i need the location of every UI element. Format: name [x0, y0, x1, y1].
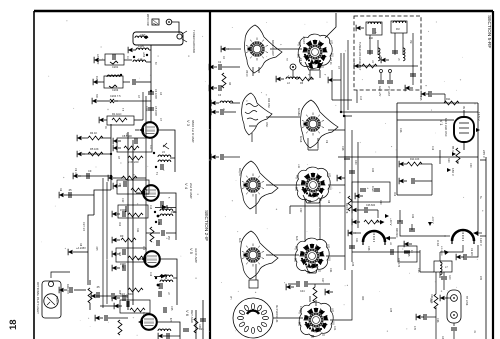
svg-text:C17: C17 — [121, 264, 124, 269]
svg-text:6U8: 6U8 — [238, 238, 241, 243]
svg-text:V 5: V 5 — [189, 248, 194, 255]
blob A2 stem wire — [251, 133, 253, 142]
svg-text:6U8: 6U8 — [295, 236, 298, 241]
svg-text:TP: TP — [285, 58, 287, 61]
wires bus left — [78, 124, 111, 190]
svg-text:R15: R15 — [407, 252, 410, 257]
svg-text:6CG8: 6CG8 — [299, 136, 302, 143]
svg-text:R18: R18 — [118, 290, 120, 295]
capacitor C5 — [145, 106, 158, 116]
stage feed components row1 — [112, 208, 126, 217]
svg-text:R26 600: R26 600 — [395, 228, 398, 238]
resistor feed V4 — [108, 175, 146, 181]
resistor under V3 — [128, 156, 143, 164]
svg-text:C13: C13 — [359, 96, 361, 101]
svg-text:C4 1000: C4 1000 — [154, 89, 158, 99]
svg-text:+A 245V: +A 245V — [76, 246, 86, 250]
svg-text:.005: .005 — [95, 246, 97, 251]
svg-text:FM 72: FM 72 — [95, 76, 99, 84]
bottom middle cluster — [249, 280, 333, 302]
svg-text:6BQ7A: 6BQ7A — [238, 168, 241, 176]
svg-text:R20: R20 — [361, 296, 363, 301]
svg-text:R16: R16 — [125, 294, 128, 299]
svg-text:3rd IF AMP: 3rd IF AMP — [194, 248, 198, 263]
wire — [172, 22, 179, 33]
svg-text:C34: C34 — [351, 262, 353, 267]
svg-text:R4 1K: R4 1K — [90, 131, 97, 135]
diode C204 — [92, 94, 151, 104]
blob A1 stem — [253, 67, 259, 76]
svg-text:C16: C16 — [399, 128, 402, 133]
blob A1 labels — [245, 40, 274, 77]
svg-text:FM: FM — [396, 28, 399, 31]
svg-text:R13: R13 — [118, 252, 120, 257]
svg-text:R19: R19 — [429, 298, 432, 303]
svg-text:C12: C12 — [121, 198, 124, 203]
svg-text:FM: FM — [409, 40, 411, 43]
blob A3 stem wire — [255, 194, 257, 214]
svg-text:C23: C23 — [142, 312, 144, 317]
svg-text:6BC8 RF AMP: 6BC8 RF AMP — [271, 40, 274, 56]
big tube circle bottom — [233, 298, 279, 338]
grid network box — [113, 134, 152, 152]
svg-text:V 4: V 4 — [184, 183, 189, 190]
svg-text:18: 18 — [8, 319, 19, 330]
diode CR2 — [154, 274, 166, 286]
svg-text:470: 470 — [413, 326, 416, 331]
svg-text:V 2A: V 2A — [436, 240, 440, 246]
detector diode 1N64 — [155, 205, 177, 217]
wire below dashed box — [397, 103, 478, 236]
bottom right RC network — [416, 272, 457, 339]
svg-text:V8 RF: V8 RF — [245, 70, 248, 77]
resistor R7 chain lower left — [68, 222, 88, 255]
more value labels — [95, 40, 475, 339]
wire pair right of socket B1 — [336, 53, 344, 116]
wires socket B1 to top — [325, 13, 336, 38]
resistor R11 — [421, 91, 459, 105]
right-side bus wires — [345, 115, 358, 270]
svg-text:120 V: 120 V — [479, 238, 483, 246]
svg-text:300 OHM: 300 OHM — [146, 13, 150, 26]
antenna input block — [133, 30, 196, 53]
svg-text:+: + — [367, 186, 369, 190]
svg-text:SECTION 5-RF: SECTION 5-RF — [486, 15, 492, 48]
socket B4 stem — [306, 266, 318, 273]
resistor R4 row — [77, 131, 111, 141]
svg-text:1M: 1M — [142, 132, 144, 135]
svg-text:C31: C31 — [329, 268, 332, 273]
svg-text:R17: R17 — [321, 278, 324, 283]
svg-text:C14: C14 — [149, 205, 151, 210]
socket B3 dark — [295, 167, 332, 202]
svg-text:C29: C29 — [411, 214, 413, 219]
blob A4 — [241, 231, 278, 279]
coil L1A — [133, 57, 151, 62]
svg-text:VHF ANT: VHF ANT — [387, 86, 390, 97]
svg-text:C203: C203 — [112, 88, 119, 92]
svg-text:ANT 300: ANT 300 — [96, 54, 100, 65]
section divider line — [209, 11, 211, 339]
grid network V6 — [114, 300, 150, 313]
tube V2A half envelope — [436, 230, 483, 256]
resistor R19 5600 — [91, 288, 143, 299]
long wires right section — [332, 70, 352, 100]
scattered labels left section — [59, 118, 162, 299]
tube V6 — [138, 314, 157, 330]
svg-text:C38: C38 — [389, 308, 391, 313]
ground arrow — [221, 46, 229, 52]
svg-text:R40: R40 — [448, 275, 451, 280]
IF transformer T3 — [155, 259, 177, 305]
svg-text:C9: C9 — [88, 169, 92, 173]
svg-text:C33: C33 — [417, 268, 420, 273]
svg-text:R23: R23 — [198, 324, 201, 329]
wire under V2B — [349, 246, 420, 268]
svg-text:+40 V: +40 V — [389, 218, 393, 226]
svg-text:6BZ6 1st IF AMP: 6BZ6 1st IF AMP — [191, 120, 195, 143]
svg-text:.05: .05 — [96, 285, 100, 289]
tube V2B half envelope — [348, 228, 398, 245]
V1 lower network — [397, 148, 460, 195]
socket B5 dark — [298, 302, 335, 337]
svg-text:R27 470: R27 470 — [397, 258, 400, 268]
UHF lower row — [354, 33, 418, 97]
capacitor C21 — [211, 154, 240, 160]
tube V4 — [136, 185, 159, 201]
svg-text:85 V: 85 V — [451, 146, 455, 152]
svg-text:2nd IF AMP: 2nd IF AMP — [189, 183, 193, 199]
svg-text:AGC +2V: AGC +2V — [378, 86, 381, 97]
wire main aerial chain — [150, 45, 152, 122]
svg-text:C41: C41 — [333, 326, 336, 331]
dashed UHF tuner box — [354, 16, 421, 90]
svg-text:10uF: 10uF — [371, 186, 374, 192]
wire to dashed box — [347, 40, 349, 110]
pilot light assembly — [36, 281, 61, 318]
svg-text:OPTIONAL PILOT LIGHT: OPTIONAL PILOT LIGHT — [36, 282, 40, 314]
svg-text:R13 4.7K: R13 4.7K — [345, 203, 348, 214]
link connector — [440, 290, 468, 323]
svg-text:3.3K 220: 3.3K 220 — [128, 160, 139, 164]
lower-left RC cluster — [59, 280, 100, 310]
svg-text:R12: R12 — [118, 222, 120, 227]
svg-text:245: 245 — [479, 276, 482, 281]
wires top of pilot — [51, 272, 70, 278]
tuner socket blob A1 — [245, 25, 282, 73]
small box C19 — [398, 246, 417, 262]
AGC box — [99, 112, 143, 125]
svg-text:R9: R9 — [120, 234, 124, 238]
svg-text:3.9K: 3.9K — [145, 106, 149, 112]
svg-text:V 1: V 1 — [439, 120, 443, 125]
antenna terminal circle — [166, 19, 172, 25]
mixer cap C6 — [444, 245, 478, 260]
wire to blob A1 — [228, 48, 241, 50]
mid caps between V2 halves — [397, 210, 446, 247]
oscillator coil box L7 — [420, 245, 463, 278]
left cluster of V2 area — [345, 203, 393, 226]
main vertical buses — [128, 132, 133, 310]
svg-text:C27 1.5: C27 1.5 — [82, 222, 86, 232]
components left of blob A1 — [209, 61, 240, 97]
svg-text:1N64: 1N64 — [171, 211, 177, 214]
svg-text:R14 10K: R14 10K — [410, 158, 420, 161]
svg-text:R2 1K: R2 1K — [329, 58, 332, 65]
svg-text:C6 10: C6 10 — [299, 58, 302, 65]
svg-text:C40: C40 — [354, 160, 357, 165]
IF transformer T2 — [154, 193, 176, 240]
long bus pair — [103, 178, 107, 308]
svg-text:47K: 47K — [169, 318, 171, 323]
UHF coil box 2 — [391, 21, 407, 33]
svg-text:C25: C25 — [170, 306, 173, 311]
socket B3 to B4 wires — [290, 199, 345, 241]
svg-text:245 V: 245 V — [482, 150, 486, 158]
svg-text:TUNER GROUND: TUNER GROUND — [192, 30, 196, 53]
coil L201 — [128, 44, 151, 53]
caps on bus — [337, 157, 357, 211]
svg-text:6CG8A: 6CG8A — [297, 108, 300, 116]
svg-text:L11: L11 — [297, 164, 300, 168]
svg-text:TP LINK: TP LINK — [465, 296, 468, 306]
tube V1 envelope — [454, 110, 474, 150]
svg-text:C204 7.5: C204 7.5 — [110, 94, 121, 98]
svg-text:R11: R11 — [446, 98, 451, 101]
test point circle — [290, 64, 296, 78]
svg-text:V 6: V 6 — [185, 310, 190, 317]
svg-text:C18: C18 — [341, 146, 344, 151]
svg-text:.05: .05 — [68, 188, 72, 192]
svg-text:PH: PH — [229, 296, 232, 300]
socket B2 stem wires — [308, 138, 318, 150]
svg-text:6AF4 UHF OSC: 6AF4 UHF OSC — [444, 118, 448, 137]
svg-text:L1A: L1A — [138, 57, 143, 61]
inter-socket wires — [266, 49, 303, 318]
socket B5 feed wire — [310, 296, 316, 306]
power filter box — [352, 182, 390, 202]
coil resistor row under sockets — [276, 76, 314, 85]
svg-text:1N64: 1N64 — [299, 306, 302, 312]
svg-text:R5 10K: R5 10K — [90, 147, 99, 151]
svg-text:C15: C15 — [419, 96, 422, 101]
svg-text:R36 270: R36 270 — [66, 284, 70, 294]
grid box V5 — [112, 248, 146, 262]
resistor R5 — [77, 147, 112, 157]
svg-text:4H PHONO JK: 4H PHONO JK — [275, 305, 279, 323]
svg-text:12.5 V: 12.5 V — [477, 112, 481, 121]
svg-text:R10: R10 — [447, 158, 450, 163]
stage feed components row3 — [112, 262, 126, 271]
svg-text:ANT: ANT — [140, 33, 146, 37]
capacitor network C203 — [93, 74, 151, 92]
svg-text:C9 .05: C9 .05 — [74, 168, 77, 176]
socket B2 light — [297, 100, 338, 148]
svg-text:C36: C36 — [436, 318, 439, 323]
svg-text:C16: C16 — [142, 246, 144, 251]
svg-text:R11: R11 — [136, 228, 139, 233]
svg-text:C19: C19 — [149, 272, 151, 277]
tube V3 — [135, 122, 158, 138]
blob A3 — [241, 161, 278, 209]
grid box V4 — [113, 176, 149, 194]
capacitor C35 — [441, 272, 451, 290]
svg-text:MIX OSC: MIX OSC — [267, 98, 270, 108]
svg-text:C26: C26 — [371, 168, 373, 173]
svg-text:R14: R14 — [355, 238, 358, 243]
svg-text:L204: L204 — [142, 52, 144, 58]
socket B1 stem — [305, 62, 323, 78]
scattered value labels — [229, 36, 482, 331]
svg-text:OSC: OSC — [265, 122, 268, 127]
socket B3 stem — [303, 195, 323, 203]
svg-text:C28: C28 — [367, 246, 370, 251]
svg-text:1500: 1500 — [120, 208, 126, 212]
phono jack icon — [146, 13, 159, 26]
capacitor C10 — [59, 188, 94, 198]
stage feed components row2 — [112, 234, 136, 243]
svg-text:C22: C22 — [299, 208, 302, 213]
stage feed components row4 — [112, 292, 125, 301]
svg-text:DET AGC: DET AGC — [190, 310, 194, 324]
voltage labels V1 — [451, 112, 486, 158]
svg-text:180 V: 180 V — [451, 168, 455, 176]
svg-text:C26 600: C26 600 — [366, 204, 376, 207]
svg-text:C6 120: C6 120 — [470, 248, 473, 256]
blob A2 (squiggle interior) — [242, 93, 272, 135]
svg-text:PILOT: PILOT — [55, 296, 59, 304]
svg-text:C5 1500: C5 1500 — [154, 106, 158, 116]
IF transformer T1 — [153, 130, 175, 172]
svg-text:SECTION 2-IF: SECTION 2-IF — [203, 210, 209, 241]
svg-text:C30: C30 — [379, 200, 382, 205]
capacitor C9 — [73, 169, 112, 179]
long bus wires to right edge — [338, 112, 478, 157]
components left of blob A2 — [211, 100, 240, 115]
svg-text:C20: C20 — [469, 163, 472, 168]
svg-text:C44: C44 — [300, 290, 305, 293]
svg-text:R1 AGC: R1 AGC — [112, 112, 122, 116]
UHF mid cluster — [367, 33, 405, 63]
tube V5 — [137, 251, 160, 267]
V6 output network — [157, 300, 204, 339]
capacitor network C201 — [94, 54, 148, 69]
svg-text:C19: C19 — [431, 146, 433, 151]
svg-text:C201: C201 — [112, 65, 119, 69]
svg-text:L2 ANT: L2 ANT — [302, 36, 305, 45]
blob A4 stem wire — [255, 264, 257, 280]
UHF coil box 1 — [356, 22, 382, 40]
mid network between V4 V5 — [118, 205, 176, 246]
svg-text:V 3: V 3 — [186, 120, 191, 127]
ground arrow — [328, 77, 336, 83]
bottom area extra components — [95, 306, 206, 339]
svg-text:R12: R12 — [393, 192, 395, 197]
tube socket B1 dark — [297, 34, 334, 69]
capacitor C4 — [148, 89, 158, 99]
socket B4 dark — [294, 238, 331, 273]
svg-text:L204: L204 — [138, 44, 144, 48]
